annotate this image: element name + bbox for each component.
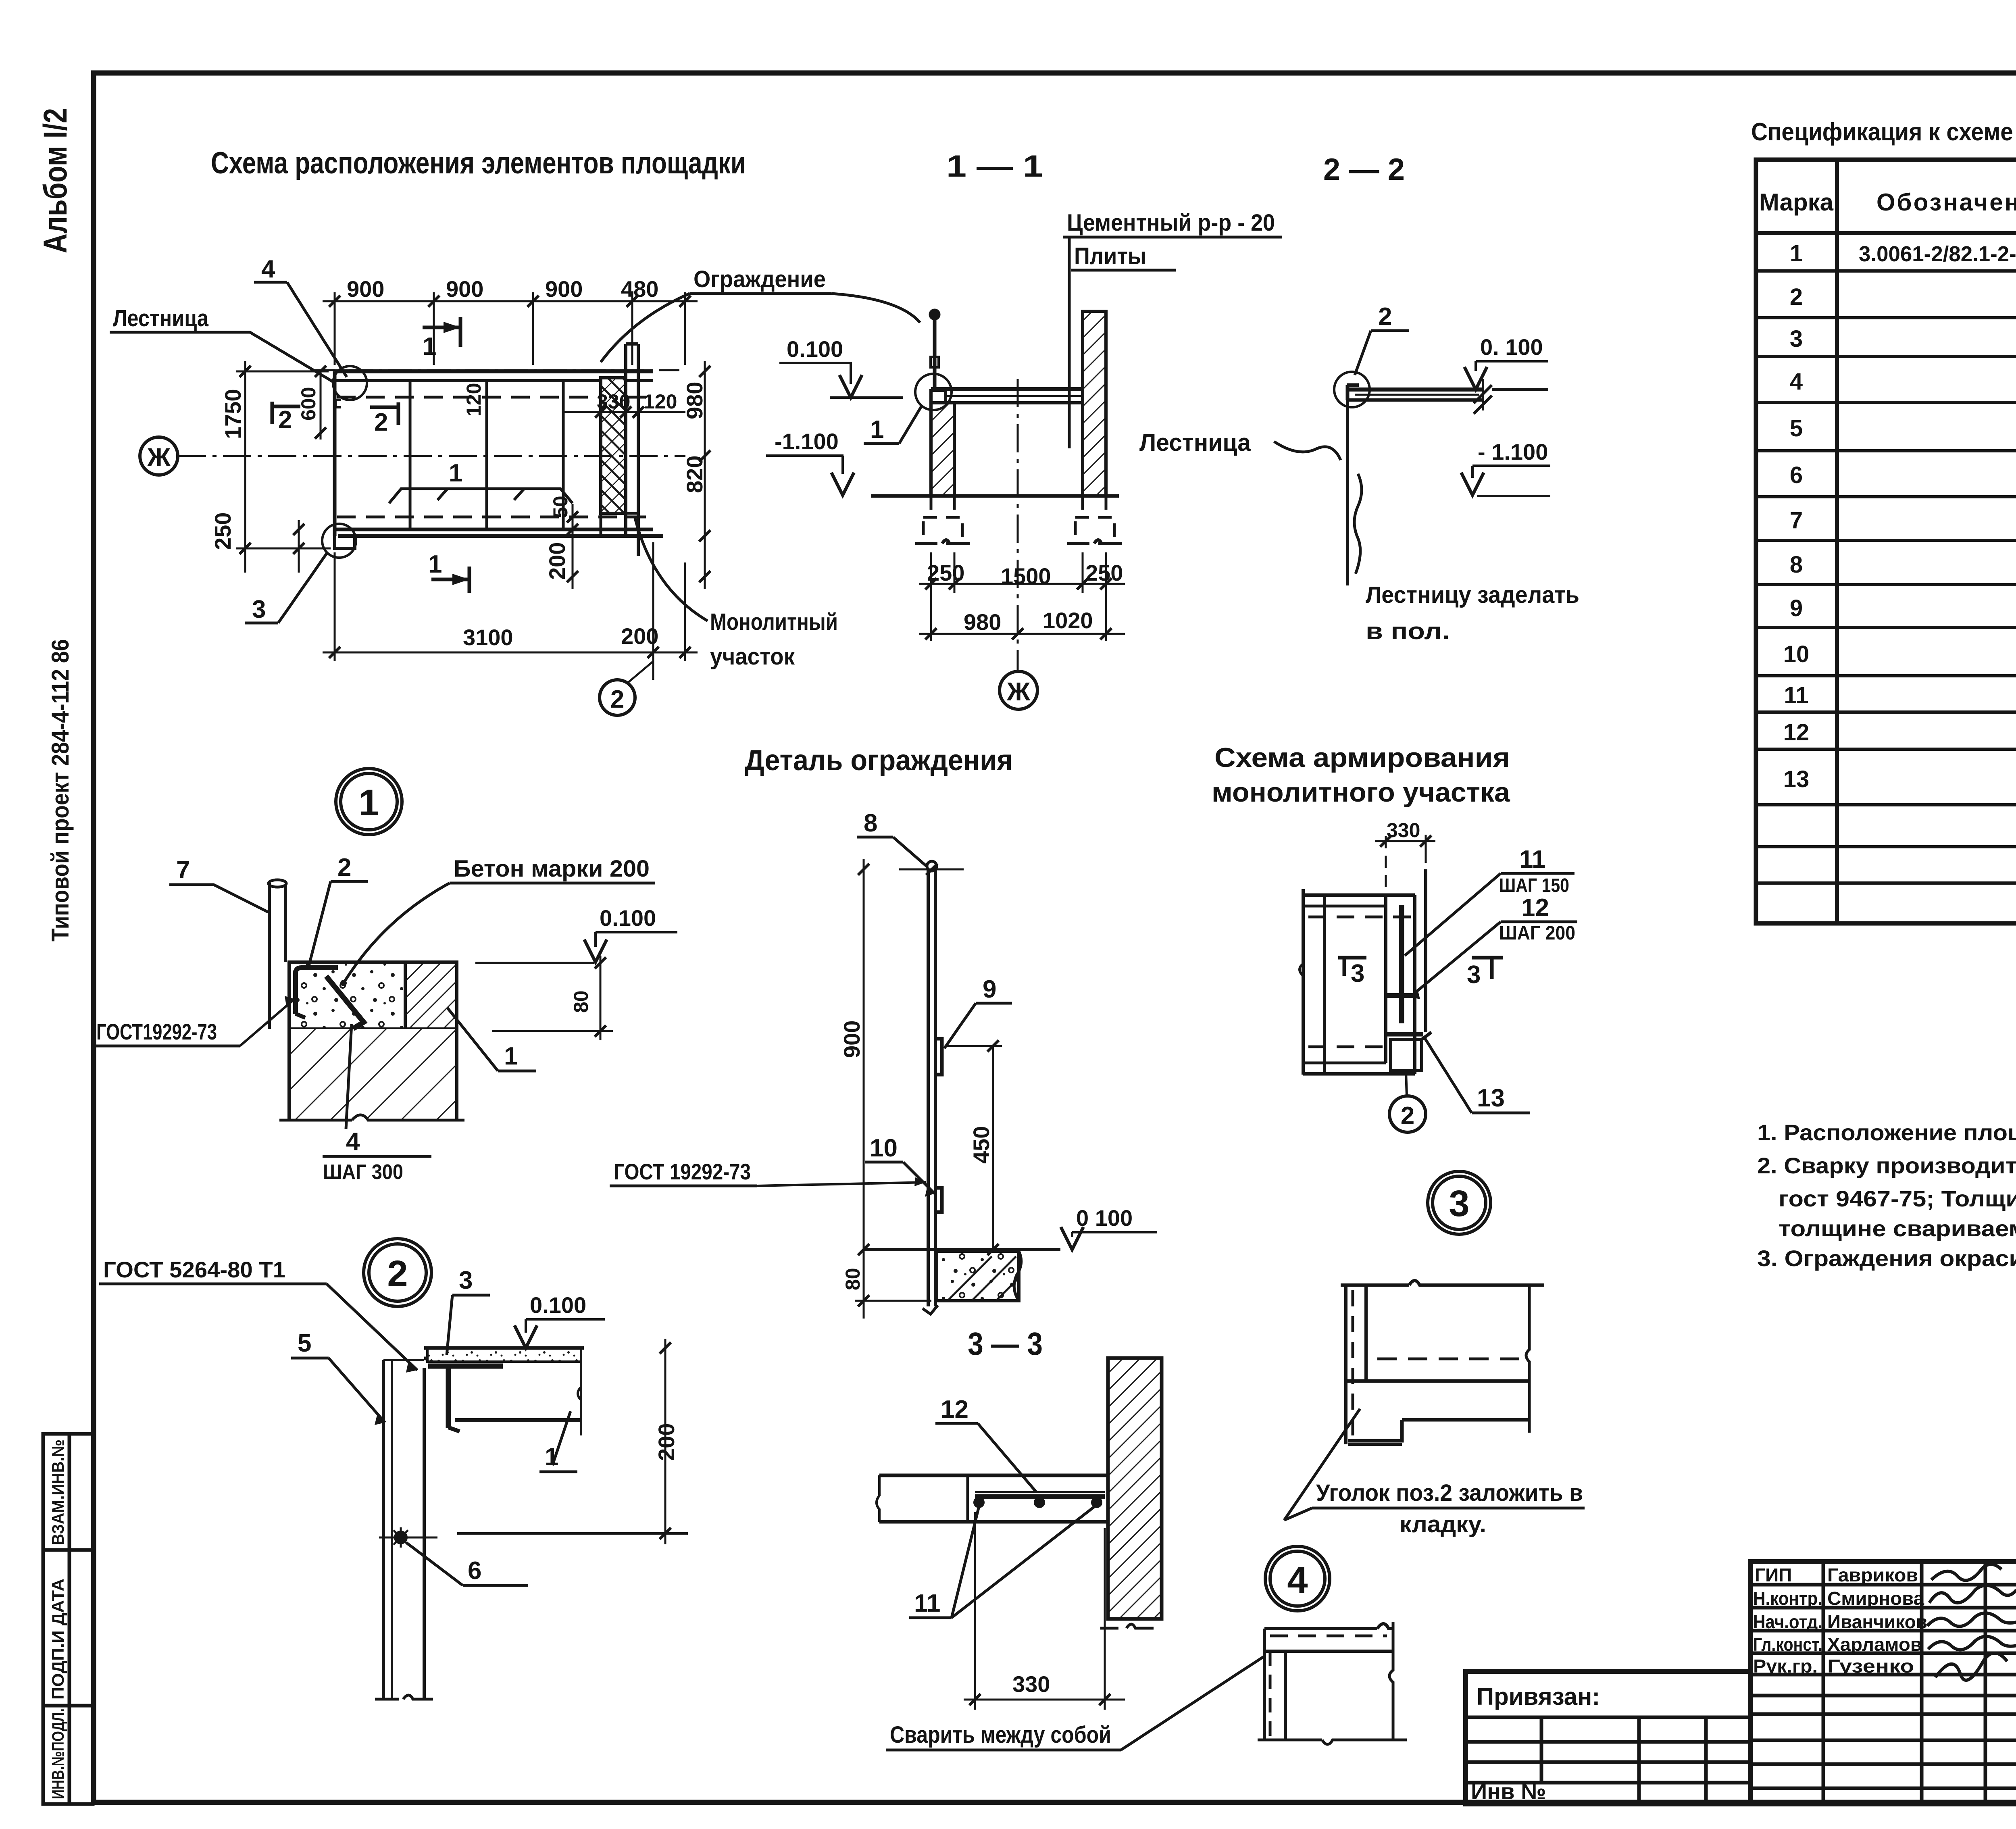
slab right end ticks bbox=[1482, 379, 1484, 410]
dim 330 (3-3) bbox=[964, 1512, 1125, 1710]
svg-text:участок: участок bbox=[710, 644, 795, 670]
dashed line below top bbox=[1270, 1635, 1387, 1637]
wall bottom break bbox=[375, 1695, 433, 1699]
level 0.100 (detail 1) bbox=[475, 905, 677, 963]
svg-text:1020: 1020 bbox=[1043, 608, 1093, 633]
svg-text:Н.контр.: Н.контр. bbox=[1753, 1588, 1822, 1609]
svg-text:1: 1 bbox=[423, 333, 436, 360]
bottom corner step bbox=[335, 529, 355, 548]
svg-text:12: 12 bbox=[941, 1396, 968, 1423]
railing post bbox=[933, 319, 937, 388]
svg-text:12: 12 bbox=[1783, 719, 1810, 746]
svg-text:11: 11 bbox=[1519, 846, 1546, 873]
grid circle Ж section 1-1 bbox=[1000, 671, 1037, 709]
dim 600 small bbox=[320, 371, 322, 440]
svg-text:200: 200 bbox=[654, 1423, 679, 1461]
label Бетон марки 200 + leader bbox=[340, 856, 655, 986]
привязан box bbox=[1466, 1671, 1750, 1804]
svg-text:ШАГ 200: ШАГ 200 bbox=[1499, 923, 1575, 944]
label 11 ШАГ 150 + leader bbox=[1405, 846, 1574, 956]
svg-text:900: 900 bbox=[446, 276, 483, 302]
svg-text:980: 980 bbox=[682, 382, 707, 419]
label 3 + leader bbox=[245, 552, 327, 623]
label 12 + leader (3-3) bbox=[935, 1396, 1036, 1492]
dim 330 (arm) bbox=[1375, 835, 1435, 887]
svg-text:980: 980 bbox=[964, 609, 1001, 635]
svg-text:2: 2 bbox=[374, 408, 388, 436]
svg-text:7: 7 bbox=[176, 856, 190, 884]
svg-text:2: 2 bbox=[278, 406, 292, 434]
svg-text:Ограждение: Ограждение bbox=[694, 266, 826, 292]
label 10 + leader bbox=[865, 1134, 935, 1197]
level mark -1.100 (section 2-2) bbox=[1461, 439, 1550, 496]
svg-text:1: 1 bbox=[449, 459, 462, 487]
svg-text:2: 2 bbox=[387, 1253, 408, 1294]
grid circle Ж left bbox=[140, 437, 178, 475]
svg-text:120: 120 bbox=[644, 390, 677, 413]
svg-text:250: 250 bbox=[210, 512, 235, 550]
horizontal rebar bbox=[1387, 993, 1416, 998]
svg-text:ШАГ 150: ШАГ 150 bbox=[1499, 875, 1569, 896]
svg-text:2: 2 bbox=[1790, 284, 1803, 310]
svg-text:2: 2 bbox=[337, 854, 351, 881]
post top cap bbox=[269, 880, 286, 887]
section mark 2 inner bbox=[370, 402, 398, 436]
foundation left base bbox=[915, 540, 970, 544]
svg-text:3: 3 bbox=[1467, 961, 1481, 989]
svg-text:ГОСТ 19292-73: ГОСТ 19292-73 bbox=[614, 1159, 751, 1184]
right wall hatched bbox=[1083, 311, 1106, 496]
svg-text:5: 5 bbox=[298, 1329, 311, 1357]
vertical rebar bbox=[1399, 905, 1404, 1023]
grid circle 2 (arm) + leader bbox=[1389, 1072, 1426, 1132]
svg-text:ИНВ.№ПОДЛ.: ИНВ.№ПОДЛ. bbox=[48, 1708, 67, 1799]
svg-text:3.0061-2/82.1-2-1.0-048: 3.0061-2/82.1-2-1.0-048 bbox=[1859, 242, 2016, 266]
svg-text:9: 9 bbox=[983, 975, 996, 1003]
footing hatch overlay bbox=[948, 1256, 992, 1301]
post top tick line bbox=[899, 869, 964, 871]
svg-text:Ж: Ж bbox=[1006, 677, 1031, 706]
left verticals bbox=[1344, 1285, 1347, 1444]
label 1 + leader (detail 2) bbox=[539, 1411, 577, 1472]
svg-text:ГОСТ19292-73: ГОСТ19292-73 bbox=[96, 1019, 217, 1044]
svg-text:1: 1 bbox=[428, 550, 442, 578]
level 0.100 (detail 2) bbox=[514, 1292, 605, 1348]
platform bottom edge thick bbox=[335, 528, 653, 531]
svg-text:4: 4 bbox=[1287, 1560, 1308, 1601]
fence dims bbox=[855, 859, 1002, 1319]
post bottom fork bbox=[923, 1305, 938, 1314]
svg-text:2: 2 bbox=[1378, 303, 1392, 331]
small box under pier bbox=[601, 513, 638, 536]
svg-text:120: 120 bbox=[462, 383, 485, 417]
dim 80 (detail 1) bbox=[492, 956, 613, 1040]
dim 330/120 over pier bbox=[564, 411, 685, 413]
svg-text:3 — 3: 3 — 3 bbox=[968, 1326, 1043, 1362]
label 2 + leader (detail 1) bbox=[309, 854, 368, 966]
wall line below slab bbox=[1346, 400, 1349, 585]
detail callout circle 2 bbox=[364, 1239, 431, 1306]
concrete footing bbox=[937, 1251, 1019, 1301]
section mark 2 left bbox=[272, 402, 300, 434]
svg-text:ВЗАМ.ИНВ.№: ВЗАМ.ИНВ.№ bbox=[48, 1439, 67, 1545]
svg-text:13: 13 bbox=[1477, 1084, 1505, 1112]
plate joint line 3 bbox=[562, 381, 565, 529]
svg-text:1: 1 bbox=[358, 782, 379, 823]
bottom edge double bbox=[1303, 1062, 1386, 1064]
left vertical dim 250 bbox=[298, 520, 300, 573]
svg-text:0. 100: 0. 100 bbox=[1480, 334, 1543, 360]
svg-text:900: 900 bbox=[347, 276, 384, 302]
svg-text:Марка: Марка bbox=[1759, 189, 1834, 216]
plate joint line 1 bbox=[409, 381, 412, 529]
label ГОСТ 5264-80 Т1 + leader bbox=[99, 1257, 417, 1373]
plate joint line 2 bbox=[485, 381, 488, 529]
dim line 980-1020 bbox=[919, 633, 1125, 635]
dashed lines bbox=[1308, 916, 1411, 919]
wall top line bbox=[383, 1359, 424, 1361]
svg-text:- 1.100: - 1.100 bbox=[1478, 439, 1548, 465]
signature column names bbox=[1920, 1562, 1924, 1804]
svg-text:820: 820 bbox=[682, 456, 707, 493]
svg-text:3: 3 bbox=[459, 1267, 473, 1294]
svg-text:900: 900 bbox=[839, 1021, 864, 1058]
wall hatched bbox=[1108, 1358, 1162, 1619]
short tick top bbox=[1365, 1309, 1368, 1312]
upper bracket (9) bbox=[936, 1039, 942, 1075]
railing ball bbox=[930, 310, 939, 319]
level mark -1.100 (section 1-1) bbox=[766, 429, 854, 495]
svg-text:0.100: 0.100 bbox=[600, 905, 656, 931]
section mark T3 left bbox=[1338, 958, 1366, 987]
label 12 ШАГ 200 + leader bbox=[1409, 894, 1577, 999]
svg-text:Плиты: Плиты bbox=[1074, 243, 1146, 269]
top edge double bbox=[1303, 894, 1415, 897]
svg-text:12: 12 bbox=[1521, 894, 1549, 922]
dim 900/80 vertical bbox=[863, 859, 865, 1319]
foundation bottom line with break bbox=[279, 1115, 464, 1120]
right verticals bbox=[1384, 895, 1387, 1063]
top line bbox=[1264, 1624, 1394, 1629]
section 1-1 dim texts bbox=[927, 560, 1123, 635]
svg-text:Иванчиков: Иванчиков bbox=[1827, 1611, 1927, 1632]
post double line bbox=[927, 869, 930, 1306]
svg-text:2: 2 bbox=[1401, 1102, 1414, 1130]
svg-text:ШАГ 300: ШАГ 300 bbox=[323, 1160, 403, 1184]
lestnitsa hook at left edge bbox=[335, 400, 341, 407]
svg-text:1750: 1750 bbox=[220, 389, 246, 439]
center axis bbox=[1017, 379, 1019, 671]
label 9 + leader bbox=[944, 975, 1012, 1048]
svg-text:гост 9467-75; Толщину швов при: гост 9467-75; Толщину швов принимать по … bbox=[1779, 1186, 2016, 1211]
detail callout circle 3 bbox=[1428, 1171, 1491, 1234]
svg-text:4: 4 bbox=[1790, 369, 1803, 395]
label 5 + leader (detail 2) bbox=[291, 1329, 385, 1425]
label Лестницу заделать в пол bbox=[1366, 582, 1579, 644]
dashed axis horizontal bbox=[1377, 1358, 1529, 1360]
signature rows bbox=[1750, 1583, 2016, 1587]
slab left break bbox=[877, 1475, 879, 1522]
step bbox=[1348, 1420, 1402, 1441]
detail circle slab corner bbox=[915, 374, 952, 410]
svg-text:4: 4 bbox=[261, 255, 275, 283]
svg-text:Монолитный: Монолитный bbox=[710, 609, 838, 635]
level mark 0.100 (section 2-2) bbox=[1464, 334, 1548, 390]
level mark 0.100 (section 1-1) bbox=[779, 336, 903, 398]
label 2 with leader (section 2-2) bbox=[1355, 303, 1409, 375]
label Ограждение + leaders bbox=[601, 266, 920, 362]
right vertical with break bbox=[1389, 1622, 1393, 1740]
signature column sig/date bbox=[1984, 1562, 1987, 1804]
signature table outline bbox=[1750, 1562, 2016, 1804]
svg-text:ПОДП.И ДАТА: ПОДП.И ДАТА bbox=[48, 1579, 67, 1700]
slab double line bbox=[1347, 387, 1483, 392]
svg-text:Гавриков: Гавриков bbox=[1827, 1564, 1918, 1585]
label Лестница + leader bbox=[110, 305, 334, 382]
right vertical with break bbox=[1526, 1285, 1529, 1433]
svg-text:330: 330 bbox=[597, 390, 630, 413]
svg-text:11: 11 bbox=[1784, 682, 1808, 708]
dim line 250-1500-250 bbox=[919, 583, 1125, 585]
left vertical bbox=[1263, 1629, 1266, 1740]
svg-text:Сварить между собой: Сварить между собой bbox=[890, 1722, 1111, 1748]
bottom line with break bbox=[1258, 1740, 1407, 1744]
svg-text:6: 6 bbox=[468, 1557, 481, 1585]
label ГОСТ 19292-73 (fence) + leader bbox=[610, 1159, 926, 1186]
svg-text:900: 900 bbox=[545, 276, 583, 302]
foundation left dashed bbox=[923, 496, 962, 544]
svg-text:480: 480 bbox=[621, 276, 658, 302]
anchor rod diagonal bbox=[326, 976, 364, 1029]
platform top axis dash-dot bbox=[310, 369, 679, 371]
label 11 + leaders (3-3) bbox=[909, 1506, 1095, 1618]
svg-text:Нач.отд.: Нач.отд. bbox=[1753, 1611, 1822, 1632]
label ГОСТ19292-73 + leader (detail 1) bbox=[92, 996, 295, 1046]
svg-text:8: 8 bbox=[1790, 552, 1803, 578]
svg-text:Схема расположения элементов п: Схема расположения элементов площадки bbox=[211, 146, 746, 180]
section mark 3T right bbox=[1467, 958, 1503, 989]
svg-text:6: 6 bbox=[1790, 462, 1803, 488]
label 13 + leader bbox=[1424, 1037, 1530, 1113]
floor line bbox=[864, 1248, 1060, 1251]
svg-text:2. Сварку производить электрод: 2. Сварку производить электродами типа Э… bbox=[1757, 1153, 2016, 1178]
svg-text:Уголок поз.2 заложить в: Уголок поз.2 заложить в bbox=[1316, 1480, 1583, 1506]
label Цементный р-р - 20 bbox=[1063, 210, 1282, 448]
corner angle bbox=[428, 1364, 503, 1369]
foundation right base bbox=[1067, 540, 1122, 544]
label 3 + leader (detail 2) bbox=[447, 1267, 490, 1355]
table column Марка bbox=[1835, 160, 1839, 923]
wall outer line right bbox=[637, 344, 640, 556]
detail circle bottom-left corner bbox=[322, 524, 356, 558]
svg-text:Лестница: Лестница bbox=[113, 305, 209, 331]
svg-text:в пол.: в пол. bbox=[1366, 618, 1450, 644]
svg-text:Лестница: Лестница bbox=[1139, 429, 1251, 456]
slab with screed bbox=[427, 1348, 581, 1362]
svg-text:0 100: 0 100 bbox=[1076, 1205, 1133, 1231]
weld symbol (detail 2) bbox=[379, 1527, 437, 1548]
post double line bbox=[268, 883, 271, 1029]
svg-text:Типовой проект 284-4-112 86: Типовой проект 284-4-112 86 bbox=[47, 639, 74, 942]
label Сварить между собой + leader bbox=[886, 1656, 1265, 1750]
level 0 100 (fence) bbox=[1061, 1205, 1157, 1250]
signatures squiggles bbox=[1927, 1564, 2016, 1680]
label 6 + leader (detail 2) bbox=[406, 1543, 528, 1585]
svg-text:ГИП: ГИП bbox=[1755, 1564, 1792, 1585]
right vertical dim line 980/820 bbox=[704, 361, 706, 589]
label 4 ШАГ 300 + leader bbox=[323, 1024, 431, 1184]
slab corner angle bbox=[1347, 385, 1359, 400]
lower bracket (10) bbox=[936, 1188, 942, 1212]
label 7 + leader bbox=[169, 856, 268, 912]
svg-text:10: 10 bbox=[1783, 641, 1810, 667]
slab double line bbox=[931, 387, 1093, 391]
wall bottom break bbox=[1100, 1624, 1154, 1628]
привязан column lines bbox=[1540, 1717, 1543, 1783]
slab joint bbox=[966, 1475, 969, 1522]
table outline bbox=[1756, 160, 2016, 923]
svg-text:1500: 1500 bbox=[1001, 563, 1051, 589]
svg-text:2: 2 bbox=[610, 685, 624, 713]
svg-text:Схема армирования: Схема армирования bbox=[1214, 742, 1510, 773]
table header bottom bbox=[1756, 231, 2016, 235]
svg-text:0.100: 0.100 bbox=[787, 336, 843, 362]
svg-text:Смирнова: Смирнова bbox=[1827, 1588, 1924, 1609]
dim 450 vertical bbox=[992, 1046, 994, 1250]
section 1-1 dims bbox=[919, 552, 1125, 641]
grid circle 2 bottom bbox=[600, 661, 653, 715]
mid horizontal bbox=[1346, 1379, 1530, 1383]
svg-text:-1.100: -1.100 bbox=[775, 429, 839, 454]
svg-text:0.100: 0.100 bbox=[530, 1292, 586, 1318]
svg-text:8: 8 bbox=[864, 809, 877, 837]
svg-text:1: 1 bbox=[504, 1042, 518, 1070]
svg-text:1. Расположение площадки на пл: 1. Расположение площадки на плане см.лис… bbox=[1757, 1120, 2016, 1145]
dim 200 (detail 2) bbox=[457, 1339, 688, 1544]
svg-text:Цементный р-р - 20: Цементный р-р - 20 bbox=[1067, 210, 1275, 236]
svg-text:ГОСТ 5264-80 Т1: ГОСТ 5264-80 Т1 bbox=[103, 1257, 285, 1282]
svg-text:1: 1 bbox=[870, 416, 884, 444]
svg-text:13: 13 bbox=[1783, 766, 1810, 792]
svg-text:11: 11 bbox=[914, 1589, 941, 1617]
label 8 + leader bbox=[857, 809, 927, 867]
fence dim texts bbox=[839, 1021, 994, 1290]
slab lines bbox=[879, 1474, 1108, 1477]
platform bottom dashed hidden line bbox=[337, 516, 649, 519]
svg-text:3100: 3100 bbox=[463, 625, 513, 650]
platform top dashed hidden line bbox=[337, 396, 649, 399]
svg-text:250: 250 bbox=[927, 560, 964, 585]
svg-text:250: 250 bbox=[1085, 560, 1123, 585]
bottom dim line 3100/200 bbox=[323, 652, 698, 654]
svg-text:Гузенко: Гузенко bbox=[1827, 1656, 1914, 1677]
embedded plate bbox=[975, 1494, 1105, 1499]
label 1 + leader (detail 1) bbox=[448, 1008, 536, 1071]
svg-text:7: 7 bbox=[1790, 507, 1803, 533]
ladder squiggle bbox=[1354, 474, 1362, 574]
dim ticks bbox=[329, 296, 691, 307]
railing mid mark bbox=[931, 357, 939, 367]
left vertical dim 1750 bbox=[244, 361, 246, 573]
slab concrete with dots bbox=[289, 962, 405, 1029]
svg-text:200: 200 bbox=[544, 542, 570, 580]
svg-text:толщине свариваемых элементов.: толщине свариваемых элементов. bbox=[1779, 1216, 2016, 1241]
svg-text:Ж: Ж bbox=[147, 443, 171, 472]
wall top break bbox=[1083, 310, 1106, 313]
svg-text:Инв №: Инв № bbox=[1471, 1779, 1546, 1804]
post top ball bbox=[927, 861, 937, 871]
svg-text:5: 5 bbox=[1790, 415, 1803, 442]
inner solid vertical bbox=[1284, 1651, 1287, 1740]
svg-text:Рук.гр.: Рук.гр. bbox=[1753, 1656, 1818, 1677]
svg-text:4: 4 bbox=[346, 1128, 360, 1156]
margin stamp boxes bottom-left bbox=[43, 1434, 93, 1804]
wall top cap bbox=[626, 342, 638, 346]
masonry pier cross-hatched bbox=[601, 378, 626, 513]
svg-text:1: 1 bbox=[1790, 240, 1803, 267]
svg-text:Бетон марки 200: Бетон марки 200 bbox=[454, 856, 650, 882]
plate bracket label 1 bbox=[389, 459, 573, 503]
signature column titles bbox=[1822, 1562, 1825, 1804]
svg-text:450: 450 bbox=[968, 1126, 994, 1164]
platform left edge bbox=[333, 371, 337, 536]
label Плиты bbox=[1071, 243, 1176, 270]
plate bolts bbox=[975, 1498, 983, 1506]
grid line 2 extension bbox=[652, 652, 654, 680]
svg-text:кладку.: кладку. bbox=[1400, 1511, 1486, 1537]
svg-text:600: 600 bbox=[297, 387, 320, 421]
ground line bbox=[871, 494, 1119, 498]
svg-text:3: 3 bbox=[1449, 1183, 1469, 1224]
svg-text:3. Ограждения окрасить масляно: 3. Ограждения окрасить масляной краской … bbox=[1757, 1246, 2016, 1271]
svg-text:Привязан:: Привязан: bbox=[1477, 1683, 1600, 1710]
axis Ж horizontal dash-dot bbox=[178, 455, 685, 457]
section mark 1 bottom bbox=[428, 550, 469, 593]
svg-text:монолитного участка: монолитного участка bbox=[1212, 777, 1510, 808]
svg-text:3: 3 bbox=[1790, 326, 1803, 352]
svg-text:1 — 1: 1 — 1 bbox=[946, 149, 1043, 183]
svg-text:Спецификация к схеме расположе: Спецификация к схеме расположения элемен… bbox=[1751, 118, 2016, 146]
detail callout circle 1 bbox=[336, 769, 402, 835]
svg-text:Гл.конст.: Гл.конст. bbox=[1753, 1634, 1822, 1655]
svg-text:10: 10 bbox=[870, 1134, 898, 1162]
top dim line bbox=[323, 300, 698, 302]
svg-text:Деталь ограждения: Деталь ограждения bbox=[745, 744, 1013, 777]
svg-text:330: 330 bbox=[1387, 819, 1420, 842]
top line with break bbox=[1341, 1281, 1544, 1285]
svg-text:3: 3 bbox=[252, 596, 266, 623]
lower horizontal bbox=[1402, 1418, 1530, 1422]
svg-text:9: 9 bbox=[1790, 595, 1803, 621]
svg-text:2 — 2: 2 — 2 bbox=[1323, 152, 1405, 187]
label Монолитный участок + leader bbox=[635, 518, 838, 670]
second solid line bbox=[1264, 1650, 1393, 1653]
foundation coarse hatch bbox=[289, 1029, 457, 1119]
svg-text:80: 80 bbox=[841, 1268, 864, 1290]
detail circle (section 2-2 corner) bbox=[1334, 372, 1370, 407]
label 1 with leader (section 1-1) bbox=[864, 406, 921, 444]
slab left angle bbox=[931, 389, 946, 403]
dashed vertical bbox=[1269, 1651, 1272, 1740]
svg-text:Обозначение: Обозначение bbox=[1876, 189, 2016, 216]
left pillar hatched bbox=[931, 403, 954, 496]
label Уголок поз.2 заложить в кладку + leader bbox=[1284, 1409, 1585, 1537]
label Лестница right + squiggle bbox=[1139, 429, 1341, 460]
platform top edge double line bbox=[335, 369, 653, 373]
привязан row lines bbox=[1466, 1716, 1750, 1719]
svg-text:3: 3 bbox=[1351, 960, 1364, 987]
svg-text:Лестницу заделать: Лестницу заделать bbox=[1366, 582, 1579, 608]
